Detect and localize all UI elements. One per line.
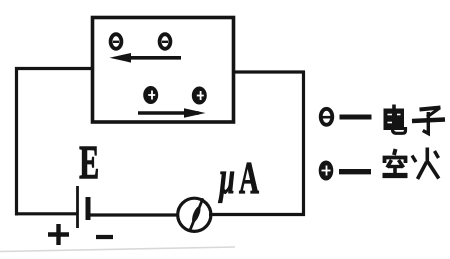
wire: top-left horizontal from left rail to box (15, 67, 93, 70)
legend symbol: hole (filled circle with plus) (319, 161, 334, 181)
electron e1 in box (circle with minus) (111, 34, 122, 49)
wire: battery to meter (89, 213, 179, 216)
wire: right vertical rail (302, 71, 305, 216)
legend symbol: electron (circle with minus) (321, 109, 333, 125)
arrow: hole drift to the right (138, 108, 206, 118)
legend text: zi (child) hand-drawn glyph (412, 108, 445, 134)
microammeter: needle slash (190, 200, 202, 230)
battery E: long positive plate (76, 186, 79, 228)
wire: top-right horizontal from box to right rail (233, 70, 305, 73)
wire: bottom-left horizontal to battery (15, 212, 77, 215)
semiconductor sample box (93, 18, 234, 123)
scan artifact: faint gray streak at bottom (0, 247, 235, 252)
label - (battery negative) (96, 235, 113, 239)
wire: meter to right rail (209, 213, 305, 216)
legend dash for electron (340, 115, 372, 120)
hole h2 in box (filled circle with plus) (192, 87, 207, 105)
battery E: short negative plate (86, 197, 91, 220)
wire: left vertical rail (15, 67, 18, 216)
legend text: dian (electric) hand-drawn glyph (385, 105, 406, 134)
label + (battery positive) (48, 224, 69, 245)
svg-text:μA: μA (218, 153, 259, 204)
arrow: electron drift to the left (110, 53, 182, 63)
svg-text:E: E (79, 135, 99, 189)
legend dash for hole (339, 169, 371, 174)
electron e2 in box (circle with minus) (160, 34, 171, 49)
hole h1 in box (filled circle with plus) (143, 86, 158, 104)
legend text: kong (empty) hand-drawn glyph (383, 149, 408, 176)
microammeter: circle (178, 198, 211, 231)
legend text: xue (hole) hand-drawn glyph (412, 148, 439, 180)
